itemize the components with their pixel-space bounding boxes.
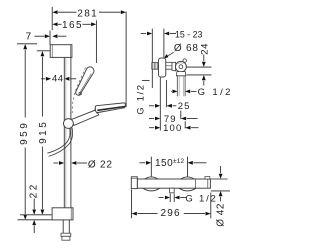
outlet clamp — [166, 62, 176, 71]
svg-text:25: 25 — [178, 101, 191, 112]
label G 1/2 nipple — [135, 80, 149, 114]
hand shower upright position — [76, 67, 94, 95]
dimension 15-23 — [141, 29, 203, 88]
label diameter 22 — [54, 160, 113, 171]
slider holder — [64, 119, 74, 129]
wall bracket top — [50, 45, 72, 58]
hose nut bottom — [61, 220, 71, 240]
dimension 25 — [149, 78, 191, 131]
dashed alternate position — [72, 68, 85, 114]
svg-text:15 - 23: 15 - 23 — [175, 29, 202, 39]
thermostat body — [131, 176, 210, 192]
outlet threaded nipple — [152, 63, 159, 70]
svg-text:915: 915 — [38, 120, 49, 144]
dimension 165 — [52, 20, 96, 63]
svg-text:165: 165 — [62, 20, 83, 31]
svg-text:281: 281 — [77, 8, 98, 19]
dimension 150 plus-minus 12 — [140, 157, 207, 178]
label diameter 68 — [164, 43, 199, 59]
bottom wall bracket — [52, 208, 73, 220]
svg-text:Ø 68: Ø 68 — [174, 43, 199, 54]
dimension 100 — [149, 121, 199, 134]
dimension 22 — [29, 182, 40, 233]
svg-text:44: 44 — [52, 74, 64, 85]
hand shower head — [95, 103, 125, 113]
svg-text:150: 150 — [155, 158, 173, 169]
dimension 7 — [26, 31, 67, 45]
svg-text:7: 7 — [26, 32, 32, 43]
svg-text:296: 296 — [160, 208, 180, 219]
svg-text:22: 22 — [29, 182, 40, 198]
label G 1/2 outlet — [171, 87, 233, 98]
hand shower handle — [71, 109, 99, 126]
dimension 281 — [52, 7, 126, 107]
outlet flange — [159, 58, 166, 77]
dimension 44 — [41, 74, 76, 85]
svg-text:Ø 22: Ø 22 — [88, 160, 113, 171]
outlet ball joint — [176, 59, 187, 72]
svg-text:G 1/2: G 1/2 — [135, 83, 146, 114]
dimension 296 — [132, 190, 211, 219]
wall bar — [64, 57, 71, 207]
dimension 24 — [186, 43, 211, 85]
dimension 79 — [149, 111, 198, 125]
svg-text:Ø 42: Ø 42 — [215, 203, 226, 227]
shower hose — [47, 128, 72, 157]
dimension 915 — [20, 51, 52, 215]
label G 1/2 thermostat — [159, 193, 218, 204]
dimension 959 — [17, 44, 52, 220]
svg-text:±12: ±12 — [173, 158, 184, 165]
outlet hose — [176, 72, 185, 97]
svg-text:100: 100 — [163, 123, 182, 134]
svg-text:24: 24 — [200, 43, 211, 55]
svg-text:G 1/2: G 1/2 — [185, 193, 217, 204]
label diameter 42 — [211, 166, 231, 227]
svg-text:G 1/2: G 1/2 — [198, 87, 233, 98]
svg-text:959: 959 — [19, 121, 30, 145]
